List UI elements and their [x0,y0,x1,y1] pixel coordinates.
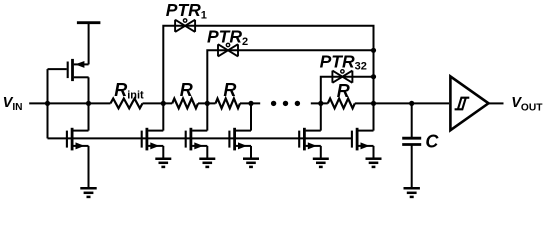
wire M2 drain to output node [88,103,90,130]
power rail VDD [77,23,101,65]
svg-text:PTR2: PTR2 [207,26,248,47]
transistor M6 (NMOS) [299,128,321,151]
resistor R stage 1 [172,80,198,109]
wire Rinit to node 1 [143,102,173,104]
node 3 [248,101,253,106]
svg-text:R: R [180,80,193,100]
wire node to M4 drain [206,103,208,130]
node 2 [205,101,210,106]
ground [80,150,96,197]
wire R2 to node 3 [240,102,260,104]
node capacitor tap [409,101,414,106]
wire node to M7 drain [373,103,375,130]
wire inverter input vertical [47,69,49,138]
wire right vertical bus [373,26,375,104]
transistor M4 (NMOS) [186,128,208,151]
transistor M5 (NMOS) [229,128,251,151]
transistor M3 (NMOS) [142,128,164,151]
ground [155,146,171,167]
ground [313,146,329,167]
node PTR2 at right bus [371,48,376,53]
node 5 (right bus junction) [371,101,376,106]
switch PTR2 [207,26,248,56]
svg-text:Rinit: Rinit [114,80,144,102]
node PTR32 at right bus [371,74,376,79]
wire R1 to node 2 [198,102,216,104]
ground [366,146,382,167]
wire node1 riser to PTR1 [163,26,374,104]
node 1 [161,101,166,106]
wire M1 drain to output node [88,77,90,103]
svg-text:PTR1: PTR1 [166,0,207,21]
wire node2 riser to PTR2 [207,50,373,103]
wire node to M3 drain [162,103,164,130]
resistor R stage 32 [328,81,355,109]
wire main line: output node to Rinit [48,102,111,104]
node inverter output [86,101,91,106]
resistor R stage 2 [216,80,241,108]
wire node to M5 drain [250,103,252,130]
svg-text:C: C [425,132,439,152]
transistor M2 (NMOS) [67,128,89,151]
wire NMOS gate bus [48,137,352,139]
switch PTR1 [166,0,207,32]
node inverter input [45,101,50,106]
ground [243,146,259,167]
capacitor C [402,103,439,151]
ground [199,146,215,167]
wire last R to schmitt input [355,102,449,104]
svg-text:VOUT: VOUT [511,95,543,113]
node 4 [318,101,323,106]
wire M2 source down [88,146,90,155]
wire main line resume to node 4 [311,102,328,104]
wire VIN input [29,102,47,104]
transistor M7 (NMOS) [352,128,374,151]
ellipsis dots (repeated stages) [271,101,300,106]
schmitt trigger U1 [450,76,488,130]
svg-text:R: R [337,81,350,101]
wire node4 riser to PTR32 [321,77,374,104]
switch PTR32 [320,51,367,83]
svg-text:PTR32: PTR32 [320,51,367,72]
ground (capacitor) [404,145,420,197]
svg-text:R: R [223,80,236,100]
transistor M1 (PMOS) [48,59,89,81]
wire node to M6 drain [320,103,322,130]
svg-text:VIN: VIN [3,95,23,113]
resistor Rinit [111,80,145,108]
wire schmitt output [489,102,504,104]
